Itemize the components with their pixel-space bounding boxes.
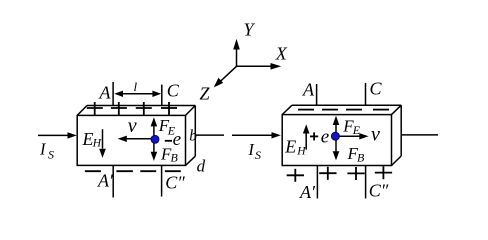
- electrode lead A (left box): [112, 82, 114, 106]
- svg-text:d: d: [197, 156, 206, 175]
- label F_B (left box): [160, 144, 179, 164]
- current arrow I_S (middle): [232, 132, 281, 138]
- svg-text:A′: A′: [299, 182, 316, 202]
- svg-text:S: S: [255, 148, 261, 162]
- right box back-top edge: [292, 104, 401, 106]
- electrode lead A (right box): [316, 84, 318, 105]
- svg-text:A: A: [99, 82, 112, 102]
- electrode lead C (right box): [365, 83, 367, 105]
- minus charge 1 on right box top: [298, 109, 314, 111]
- plus charge 2 below right box: [319, 167, 336, 180]
- svg-text:C″: C″: [165, 173, 185, 193]
- force F_B arrow (right box, downward): [333, 136, 340, 160]
- current arrow I_S (left): [38, 132, 77, 138]
- svg-text:A′: A′: [97, 171, 114, 191]
- svg-text:v: v: [371, 124, 380, 146]
- left box front face: [77, 115, 185, 165]
- Z axis: [200, 66, 237, 103]
- velocity arrow v (right box, rightward): [336, 133, 369, 139]
- svg-text:X: X: [275, 44, 288, 64]
- force F_E arrow (left box, upward): [151, 117, 158, 139]
- right box front face: [282, 115, 391, 166]
- label -e (left box): [165, 129, 181, 150]
- electrode lead C'' (left box): [161, 165, 163, 196]
- electron dot (left box): [151, 135, 159, 143]
- minus charge 2 on right box top: [322, 109, 338, 111]
- svg-text:l: l: [134, 79, 138, 94]
- label I_S (left): [39, 140, 54, 162]
- plus charge 2 on left box top: [111, 102, 127, 115]
- force F_B arrow (left box, downward): [151, 139, 158, 161]
- left box back-right edge: [194, 106, 196, 157]
- right box top-left slant edge: [282, 105, 292, 114]
- velocity arrow v (left box, leftward): [118, 136, 152, 142]
- svg-text:b: b: [189, 127, 197, 144]
- left box top-right slant edge: [186, 106, 196, 116]
- left box top-left slant edge: [77, 106, 87, 116]
- minus charge 3 below left box: [140, 170, 156, 172]
- svg-text:v: v: [128, 115, 137, 137]
- plus charge 4 below right box: [375, 166, 392, 179]
- label F_E (right box): [342, 116, 361, 137]
- X axis: [237, 44, 288, 70]
- Y axis: [233, 19, 255, 66]
- minus charge 3 on right box top: [346, 109, 362, 111]
- width arrow l: [114, 91, 161, 97]
- plus charge 4 on left box top: [161, 102, 177, 115]
- svg-text:S: S: [48, 148, 54, 162]
- right box back-right edge: [400, 105, 402, 156]
- left box back-top edge: [87, 105, 195, 107]
- electrode lead C (left box): [161, 85, 163, 106]
- plus charge 3 below right box: [347, 167, 364, 180]
- label I_S (middle): [247, 140, 261, 162]
- svg-text:E: E: [284, 136, 296, 156]
- right box top-right slant edge: [392, 105, 402, 114]
- plus charge 1 below right box: [287, 169, 304, 182]
- svg-text:e: e: [321, 127, 329, 148]
- force F_E arrow (right box, upward): [333, 116, 340, 137]
- label +e (right box): [310, 127, 329, 148]
- svg-text:C: C: [370, 78, 383, 98]
- svg-text:Z: Z: [200, 83, 211, 103]
- label F_E (left box): [158, 116, 176, 138]
- electron dot (right box): [331, 132, 339, 140]
- minus charge 4 on right box top: [373, 109, 389, 111]
- svg-text:e: e: [173, 129, 181, 150]
- plus charge 1 on left box top: [87, 102, 103, 115]
- plus charge 3 on left box top: [136, 102, 152, 115]
- svg-text:A: A: [302, 79, 315, 99]
- label E_H (left box): [82, 129, 102, 150]
- electrode lead A' (left box): [112, 165, 114, 197]
- svg-text:H: H: [92, 137, 102, 149]
- wire from left box to the right: [196, 134, 224, 136]
- field E_H arrow (right box, upward): [303, 124, 310, 149]
- electrode lead A' (right box): [316, 166, 318, 199]
- label F_B (right box): [347, 144, 366, 165]
- right box bottom-right slant edge: [392, 156, 402, 166]
- left box bottom-right slant edge: [186, 156, 196, 165]
- svg-text:C: C: [167, 81, 180, 101]
- label E_H (right box): [284, 136, 306, 157]
- electrode lead C'' (right box): [365, 166, 367, 199]
- svg-text:B: B: [171, 150, 179, 164]
- minus charge 4 below left box: [165, 170, 181, 172]
- wire from right box to the right: [401, 134, 438, 136]
- field E_H arrow (left box, downward): [99, 129, 106, 158]
- svg-text:H: H: [296, 145, 306, 157]
- minus charge 1 below left box: [85, 170, 101, 172]
- minus charge 2 below left box: [116, 170, 132, 172]
- svg-text:C″: C″: [369, 181, 389, 201]
- svg-text:B: B: [357, 150, 365, 164]
- svg-text:E: E: [82, 129, 94, 149]
